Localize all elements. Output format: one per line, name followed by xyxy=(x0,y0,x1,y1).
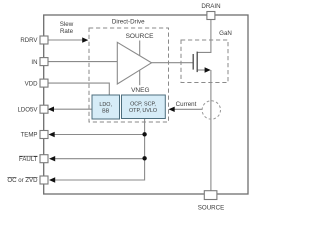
svg-text:LDO,: LDO, xyxy=(99,102,112,108)
svg-text:OCP, SCP,: OCP, SCP, xyxy=(130,101,156,107)
svg-text:VDD: VDD xyxy=(25,80,38,87)
svg-text:SOURCE: SOURCE xyxy=(126,33,154,40)
svg-text:RDRV: RDRV xyxy=(20,37,38,44)
svg-text:DRAIN: DRAIN xyxy=(201,3,220,10)
svg-text:BB: BB xyxy=(102,109,110,115)
svg-text:VNEG: VNEG xyxy=(131,87,149,94)
svg-text:TEMP: TEMP xyxy=(21,132,38,139)
svg-text:OC or ZVD: OC or ZVD xyxy=(7,177,38,184)
svg-text:IN: IN xyxy=(31,59,37,66)
svg-text:GaN: GaN xyxy=(219,30,232,37)
svg-text:OTP, UVLO: OTP, UVLO xyxy=(129,108,157,114)
svg-text:Rate: Rate xyxy=(60,28,74,35)
svg-text:LDO5V: LDO5V xyxy=(18,106,39,113)
svg-text:SOURCE: SOURCE xyxy=(198,204,224,211)
svg-text:Direct-Drive: Direct-Drive xyxy=(112,18,145,25)
svg-text:FAULT: FAULT xyxy=(19,156,38,163)
svg-text:Current: Current xyxy=(176,101,197,108)
